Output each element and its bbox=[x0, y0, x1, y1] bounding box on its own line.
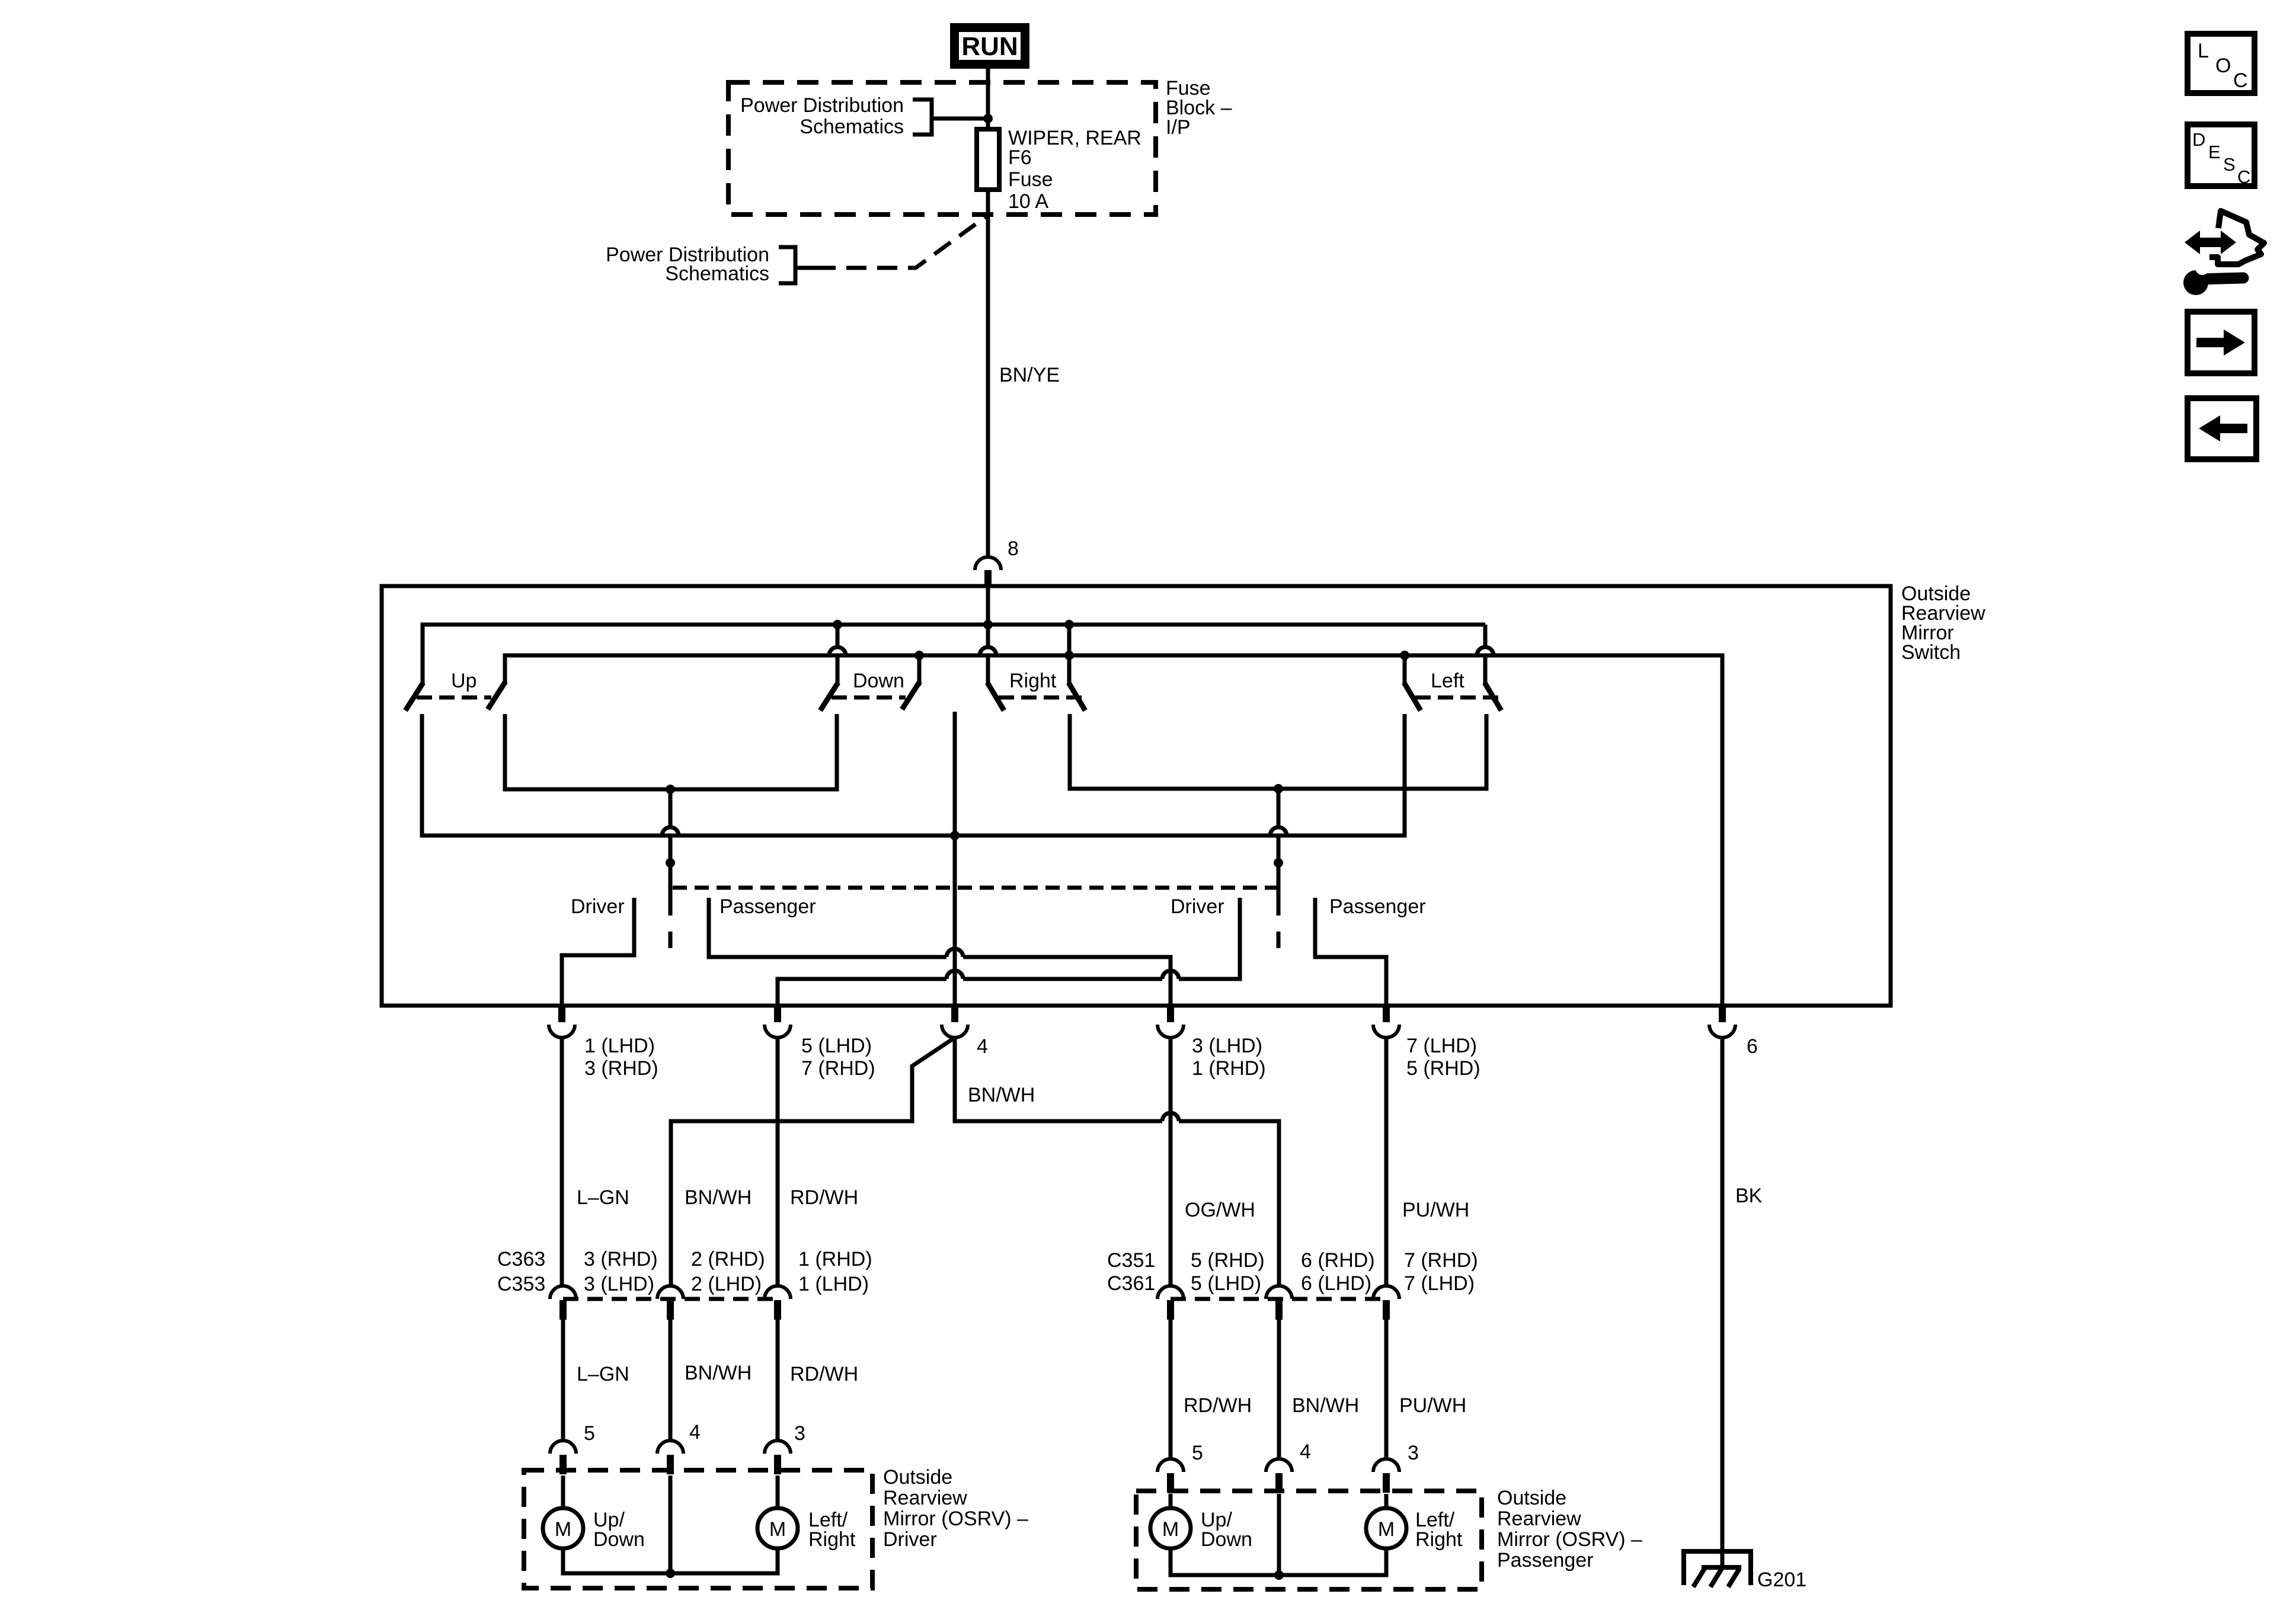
svg-text:S: S bbox=[2223, 154, 2236, 175]
wire common into driver mirror bbox=[669, 1476, 673, 1573]
driver mirror box bbox=[524, 1470, 872, 1588]
connector C353 cavity 2 bbox=[657, 1286, 683, 1299]
connector C353 cavity 3 bbox=[550, 1286, 576, 1299]
svg-text:5 (LHD): 5 (LHD) bbox=[801, 1035, 872, 1057]
wire left-switch left contact bbox=[1403, 655, 1407, 686]
svg-text:Up: Up bbox=[451, 670, 477, 692]
wire into up/down motor bbox=[561, 1476, 565, 1509]
wire BN/WH pin4 left branch bbox=[671, 1038, 955, 1286]
svg-text:4: 4 bbox=[1300, 1441, 1311, 1463]
svg-text:PU/WH: PU/WH bbox=[1399, 1394, 1466, 1417]
svg-text:Mirror (OSRV) –: Mirror (OSRV) – bbox=[883, 1508, 1028, 1530]
svg-text:BK: BK bbox=[1735, 1185, 1763, 1207]
wire pin 4 common bbox=[953, 712, 957, 1006]
icon box arrow left bbox=[2188, 398, 2256, 459]
wire BN/WH to driver mirror bbox=[669, 1320, 673, 1441]
svg-text:Outside: Outside bbox=[883, 1466, 952, 1489]
svg-text:RD/WH: RD/WH bbox=[790, 1186, 858, 1209]
wire BN/WH pin4 right branch (hops OG/WH wire) bbox=[955, 1038, 1162, 1121]
svg-text:BN/WH: BN/WH bbox=[968, 1084, 1035, 1106]
svg-text:Power Distribution: Power Distribution bbox=[740, 94, 904, 117]
svg-text:Left: Left bbox=[1431, 670, 1464, 692]
svg-text:Down: Down bbox=[1201, 1528, 1252, 1551]
bus line3 left (up-down driver) bbox=[505, 714, 837, 789]
connector driver mirror pin 4 bbox=[657, 1441, 683, 1454]
svg-text:2 (RHD): 2 (RHD) bbox=[691, 1248, 765, 1270]
selector left vertical (hops line4) bbox=[669, 789, 673, 827]
svg-text:Driver: Driver bbox=[1171, 895, 1224, 918]
connector switch pin 1 (LHD) / 3 (RHD) bbox=[558, 1007, 565, 1022]
fuse block I/P dashed box bbox=[728, 82, 1156, 215]
svg-text:C351: C351 bbox=[1107, 1249, 1155, 1272]
icon double arrow bbox=[2185, 231, 2236, 254]
svg-text:RUN: RUN bbox=[961, 32, 1018, 61]
svg-text:C361: C361 bbox=[1107, 1272, 1155, 1295]
svg-text:L–GN: L–GN bbox=[577, 1363, 629, 1385]
svg-text:Schematics: Schematics bbox=[800, 116, 904, 138]
svg-text:OG/WH: OG/WH bbox=[1185, 1199, 1255, 1221]
connector C351/C361 dashed line bbox=[1171, 1297, 1386, 1301]
svg-text:L: L bbox=[2198, 40, 2209, 62]
ground G201 bbox=[1684, 1551, 1751, 1585]
svg-text:6 (LHD): 6 (LHD) bbox=[1301, 1272, 1371, 1295]
bracket lower bbox=[779, 247, 795, 283]
svg-text:Switch: Switch bbox=[1901, 641, 1961, 664]
connector C361 cavity 7 bbox=[1373, 1286, 1399, 1299]
svg-text:Driver: Driver bbox=[883, 1528, 937, 1551]
wire RUN to fuse F6 bbox=[986, 69, 990, 129]
connector C353 cavity 1 bbox=[765, 1286, 791, 1299]
dashed reference wire bbox=[795, 266, 816, 270]
svg-text:Outside: Outside bbox=[1497, 1487, 1566, 1509]
svg-text:C363: C363 bbox=[497, 1248, 545, 1270]
passenger mirror box bbox=[1136, 1491, 1482, 1589]
svg-text:C: C bbox=[2237, 167, 2250, 187]
svg-text:RD/WH: RD/WH bbox=[1184, 1394, 1252, 1417]
svg-text:7 (RHD): 7 (RHD) bbox=[801, 1057, 875, 1080]
svg-text:Driver: Driver bbox=[571, 895, 625, 918]
svg-text:7 (RHD): 7 (RHD) bbox=[1404, 1249, 1478, 1272]
driver mirror common bus bbox=[563, 1548, 778, 1573]
switch Left bbox=[1404, 683, 1421, 711]
svg-text:5: 5 bbox=[1192, 1442, 1203, 1464]
junction dot fuse feed bbox=[983, 114, 993, 123]
passenger mirror common bus bbox=[1171, 1548, 1386, 1575]
svg-text:3: 3 bbox=[1408, 1442, 1419, 1464]
ignition switch node RUN bbox=[950, 23, 1029, 69]
wire BN/YE fuse to pin 8 bbox=[986, 190, 990, 556]
wire RD/WH to driver mirror bbox=[776, 1320, 780, 1441]
wire bracket to node bbox=[932, 117, 988, 121]
icon outline shape bbox=[2209, 211, 2264, 264]
svg-text:3 (LHD): 3 (LHD) bbox=[1192, 1035, 1262, 1057]
wire RD/WH pin2 to C353 bbox=[776, 1038, 780, 1286]
wire down-switch right contact bbox=[917, 655, 922, 686]
wire left-switch right contact (hops line2) bbox=[1483, 625, 1488, 647]
junction dots on line1 bbox=[833, 620, 842, 629]
svg-text:BN/WH: BN/WH bbox=[1292, 1394, 1359, 1417]
svg-text:L–GN: L–GN bbox=[577, 1186, 629, 1209]
svg-text:M: M bbox=[1378, 1518, 1395, 1541]
connector driver mirror pin 3 bbox=[765, 1441, 791, 1454]
svg-text:1 (LHD): 1 (LHD) bbox=[584, 1035, 655, 1057]
wire BK pin6 to ground bbox=[1721, 1038, 1725, 1567]
svg-text:3 (RHD): 3 (RHD) bbox=[584, 1057, 658, 1080]
svg-text:3 (RHD): 3 (RHD) bbox=[584, 1248, 658, 1270]
svg-text:Mirror (OSRV) –: Mirror (OSRV) – bbox=[1497, 1528, 1642, 1551]
svg-text:F6: F6 bbox=[1008, 146, 1032, 169]
wire common into passenger mirror bbox=[1277, 1494, 1281, 1575]
svg-text:M: M bbox=[555, 1518, 571, 1541]
icon box arrow right bbox=[2188, 312, 2255, 373]
svg-text:Rearview: Rearview bbox=[1497, 1508, 1581, 1530]
bus line3 right (left-right) bbox=[1070, 714, 1486, 789]
wire PU/WH pin5 to C351 bbox=[1384, 1038, 1389, 1286]
outside rearview mirror switch box bbox=[382, 586, 1891, 1006]
fuse F6 WIPER REAR 10A bbox=[977, 129, 999, 190]
svg-text:5 (RHD): 5 (RHD) bbox=[1406, 1057, 1480, 1080]
svg-text:5 (RHD): 5 (RHD) bbox=[1191, 1249, 1265, 1272]
svg-text:I/P: I/P bbox=[1166, 116, 1191, 139]
svg-text:7 (LHD): 7 (LHD) bbox=[1406, 1035, 1477, 1057]
wire main vertical to right-switch left contact (hops line2) bbox=[986, 625, 990, 647]
svg-text:1 (RHD): 1 (RHD) bbox=[798, 1248, 872, 1270]
svg-text:6: 6 bbox=[1747, 1035, 1758, 1058]
switch Right bbox=[987, 683, 1004, 711]
svg-text:C353: C353 bbox=[497, 1273, 545, 1295]
bus line 2 bbox=[505, 655, 1722, 1006]
svg-text:Right: Right bbox=[808, 1528, 856, 1551]
svg-text:Passenger: Passenger bbox=[1329, 895, 1426, 918]
svg-text:PU/WH: PU/WH bbox=[1402, 1199, 1469, 1221]
wire L-GN pin1 to C353 bbox=[560, 1038, 564, 1286]
svg-text:C: C bbox=[2233, 69, 2248, 92]
bus line4 up/down lower bbox=[422, 714, 1405, 836]
svg-text:O: O bbox=[2215, 55, 2231, 77]
svg-text:BN/WH: BN/WH bbox=[685, 1362, 752, 1384]
wire pin8 into box bbox=[986, 587, 990, 625]
motor M up/down driver bbox=[543, 1508, 583, 1548]
svg-text:Passenger: Passenger bbox=[720, 895, 816, 918]
wire into up/down motor bbox=[1169, 1494, 1173, 1509]
connector C361 cavity 6 bbox=[1266, 1286, 1292, 1299]
wire RD/WH to passenger mirror bbox=[1169, 1320, 1173, 1459]
wire down-switch left contact (hops line2) bbox=[836, 625, 840, 647]
connector passenger mirror pin 5 bbox=[1157, 1459, 1184, 1472]
svg-text:6 (RHD): 6 (RHD) bbox=[1301, 1249, 1375, 1272]
connector switch pin 3 (LHD) / 1 (RHD) bbox=[1167, 1007, 1174, 1022]
svg-text:Passenger: Passenger bbox=[1497, 1549, 1594, 1572]
svg-text:1 (LHD): 1 (LHD) bbox=[798, 1273, 869, 1295]
wire into left/right motor bbox=[1384, 1494, 1389, 1509]
svg-text:8: 8 bbox=[1008, 537, 1019, 560]
connector switch pin 7 (LHD) / 5 (RHD) bbox=[1383, 1007, 1390, 1022]
svg-text:Rearview: Rearview bbox=[883, 1487, 967, 1509]
svg-text:3: 3 bbox=[794, 1422, 805, 1445]
svg-text:E: E bbox=[2208, 142, 2221, 162]
icon box LOC bbox=[2188, 34, 2255, 93]
svg-text:Schematics: Schematics bbox=[665, 263, 769, 285]
connector passenger mirror pin 3 bbox=[1373, 1459, 1399, 1472]
svg-text:7 (LHD): 7 (LHD) bbox=[1404, 1272, 1475, 1295]
svg-text:Right: Right bbox=[1415, 1528, 1463, 1551]
switch Down bbox=[820, 683, 838, 711]
svg-text:Fuse: Fuse bbox=[1008, 168, 1053, 191]
svg-text:4: 4 bbox=[689, 1421, 701, 1444]
svg-text:Down: Down bbox=[853, 670, 904, 692]
svg-text:4: 4 bbox=[977, 1035, 988, 1058]
svg-text:RD/WH: RD/WH bbox=[790, 1363, 858, 1385]
svg-text:10 A: 10 A bbox=[1008, 190, 1048, 213]
wire L-GN to driver mirror bbox=[561, 1320, 565, 1441]
connector pin 8 bbox=[975, 557, 1001, 570]
wire OG/WH pin3 to C351 bbox=[1169, 1038, 1173, 1286]
connector C363/C353 dashed line bbox=[563, 1297, 778, 1301]
svg-text:Right: Right bbox=[1009, 670, 1057, 692]
svg-text:1 (RHD): 1 (RHD) bbox=[1192, 1057, 1266, 1080]
connector switch pin 6 bbox=[1719, 1007, 1726, 1022]
icon box DESC bbox=[2188, 124, 2255, 186]
wire into left/right motor bbox=[776, 1476, 780, 1509]
connector switch pin 4 bbox=[951, 1007, 958, 1022]
svg-text:M: M bbox=[1162, 1518, 1179, 1541]
connector C361 cavity 5 bbox=[1157, 1286, 1184, 1299]
switch Up bbox=[405, 683, 423, 711]
svg-text:M: M bbox=[769, 1518, 786, 1541]
svg-text:BN/WH: BN/WH bbox=[685, 1186, 752, 1209]
wire right-switch right contact tie bbox=[1067, 625, 1072, 686]
svg-text:Down: Down bbox=[593, 1528, 645, 1551]
selector right vertical (hops line4) bbox=[1277, 789, 1281, 827]
mechanical link dashed bbox=[673, 886, 1278, 890]
connector switch pin 5 (LHD) / 7 (RHD) bbox=[774, 1007, 781, 1022]
svg-text:3 (LHD): 3 (LHD) bbox=[584, 1273, 654, 1295]
svg-text:BN/YE: BN/YE bbox=[999, 364, 1060, 386]
svg-text:2 (LHD): 2 (LHD) bbox=[691, 1273, 762, 1295]
connector driver mirror pin 5 bbox=[550, 1441, 576, 1454]
svg-text:5: 5 bbox=[584, 1422, 595, 1445]
motor M left/right driver bbox=[757, 1508, 798, 1548]
wire PU/WH to passenger mirror bbox=[1384, 1320, 1389, 1459]
icon wrench bbox=[2183, 270, 2208, 295]
wire BN/WH to passenger mirror bbox=[1277, 1320, 1281, 1459]
motor M up/down passenger bbox=[1150, 1508, 1191, 1548]
junction dots on line2 bbox=[914, 651, 924, 660]
connector passenger mirror pin 4 bbox=[1266, 1459, 1292, 1472]
svg-text:G201: G201 bbox=[1757, 1569, 1806, 1591]
svg-text:D: D bbox=[2192, 129, 2205, 150]
svg-text:5 (LHD): 5 (LHD) bbox=[1191, 1272, 1261, 1295]
bracket upper bbox=[913, 100, 932, 135]
motor M left/right passenger bbox=[1366, 1508, 1406, 1548]
bus line 1 (feed) bbox=[423, 625, 1485, 686]
